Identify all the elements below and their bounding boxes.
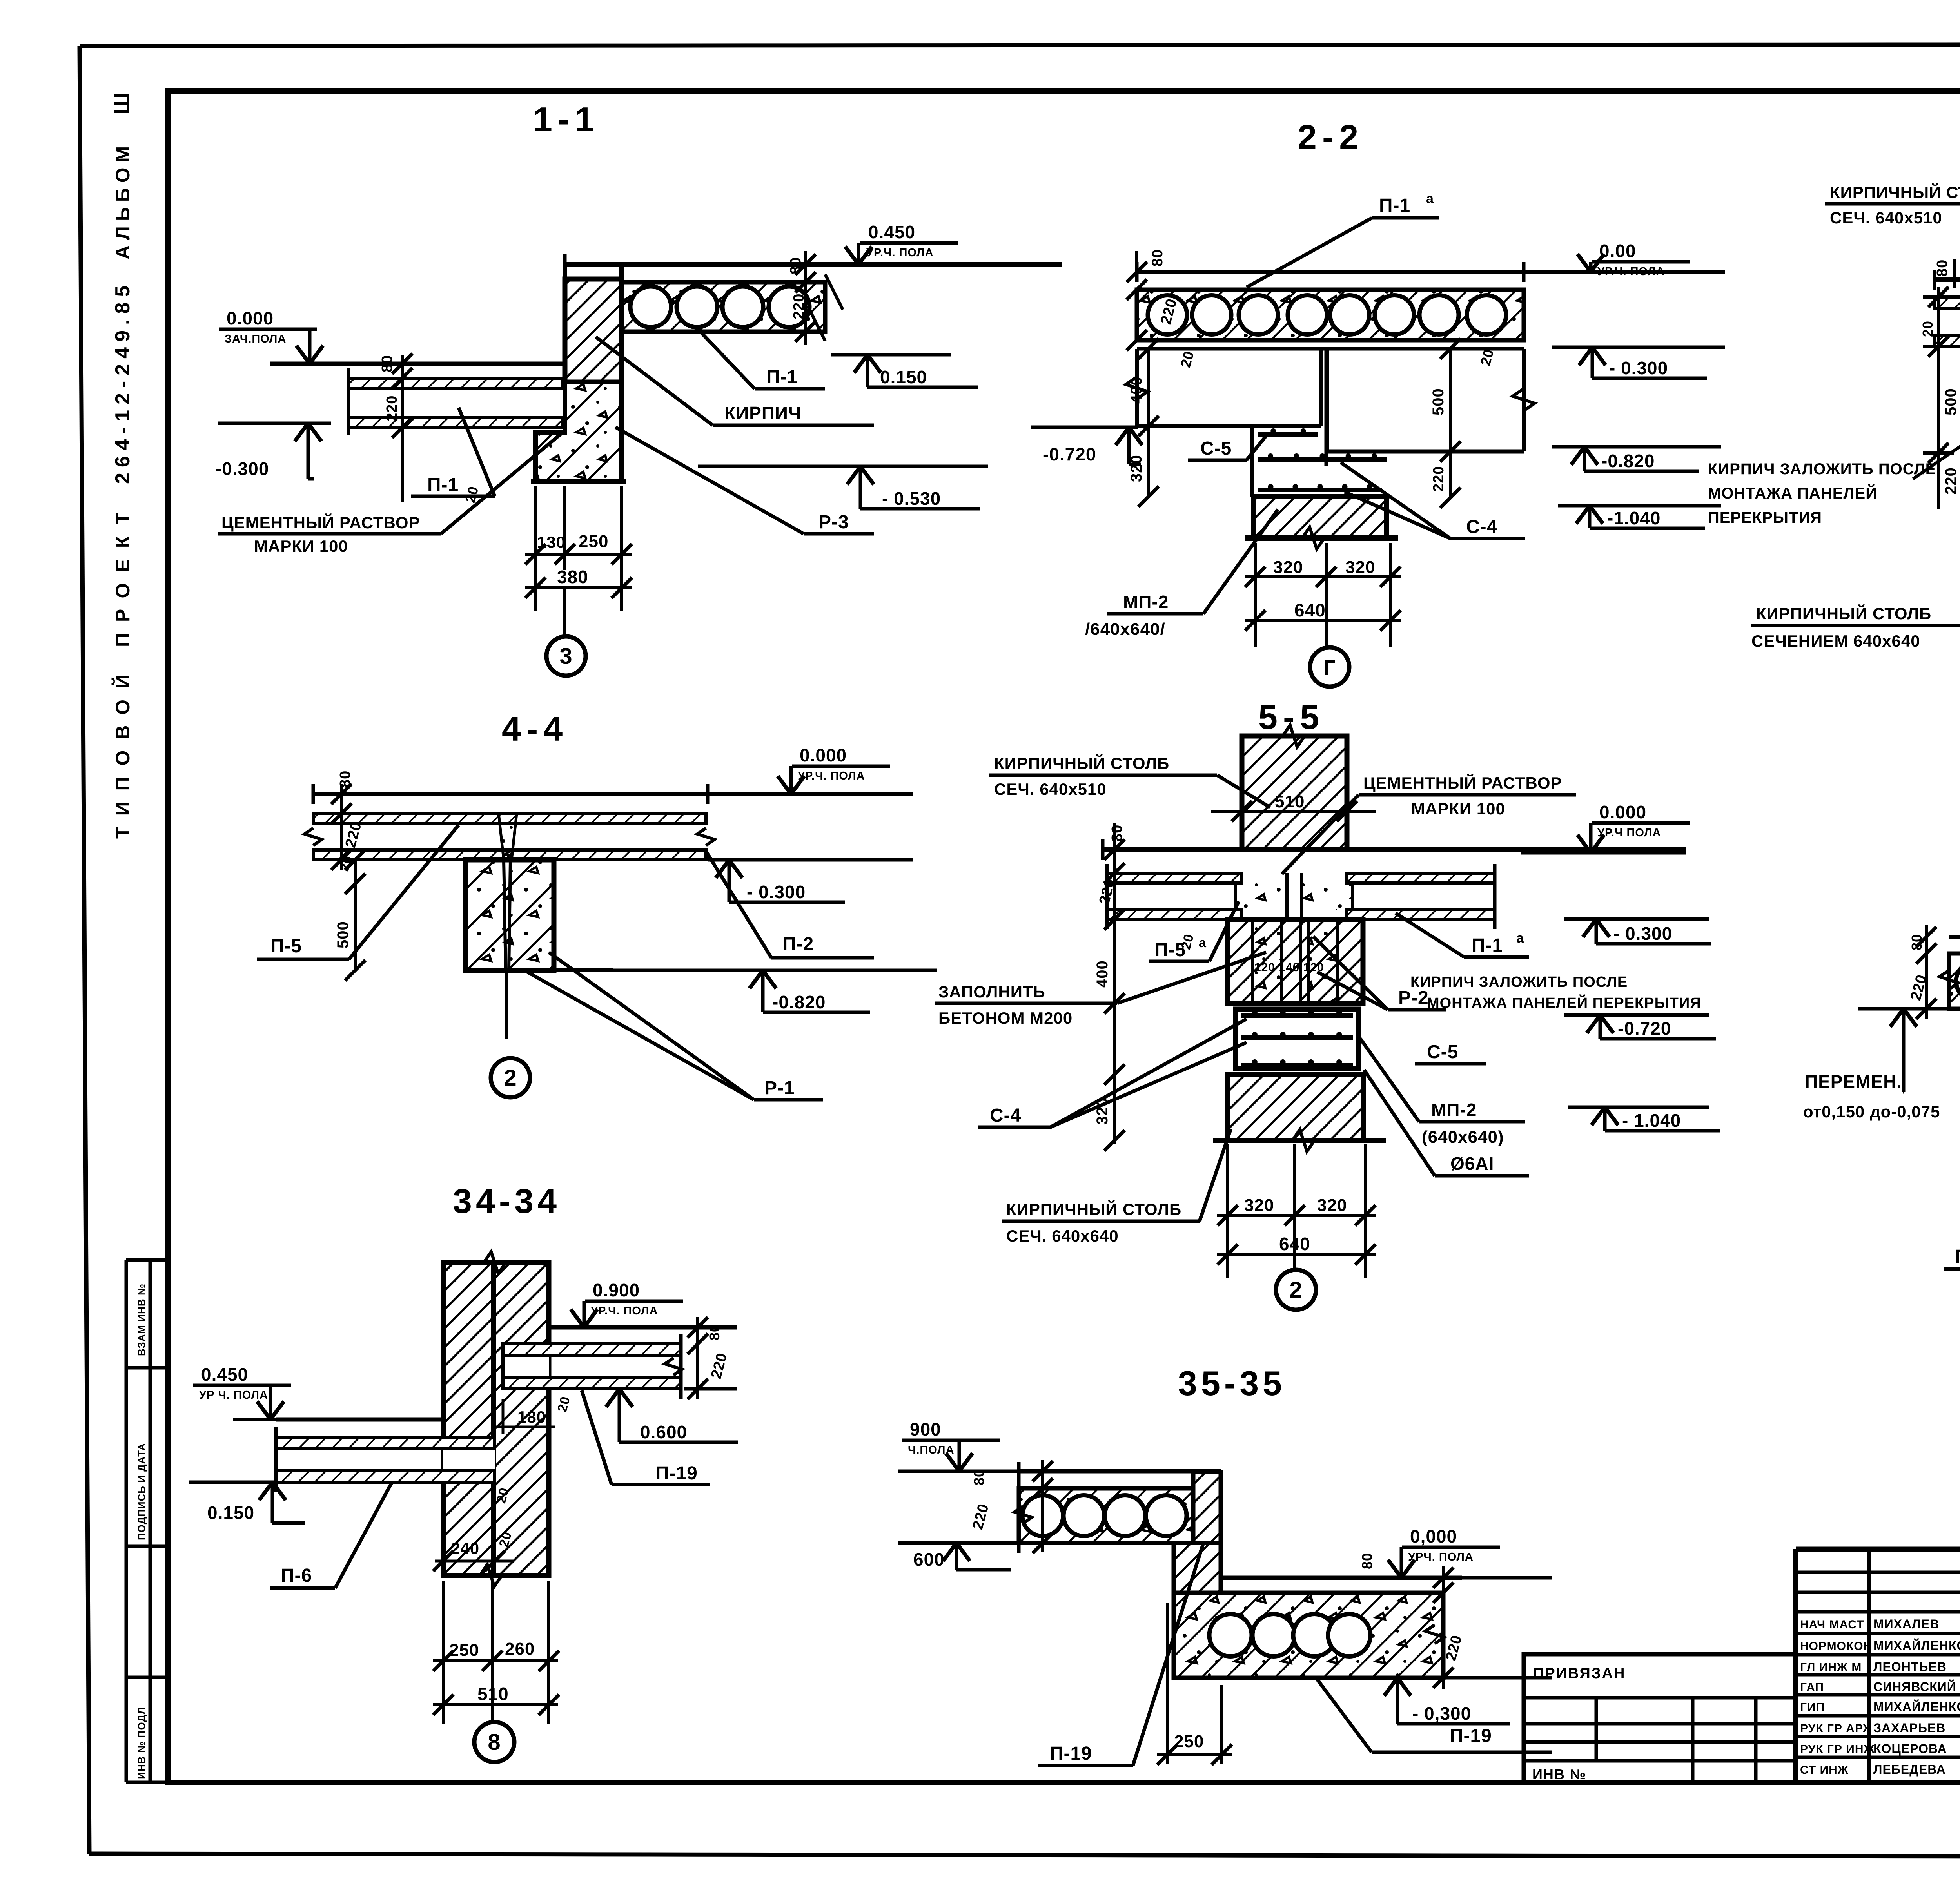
svg-text:0,000: 0,000 [1410,1526,1457,1546]
svg-text:0.000: 0.000 [1599,802,1646,822]
svg-text:ПОДПИСЬ И ДАТА: ПОДПИСЬ И ДАТА [136,1443,147,1540]
svg-text:КИРПИЧНЫЙ СТОЛБ: КИРПИЧНЫЙ СТОЛБ [1756,604,1931,623]
section 35-35 upper slab P-19 [1014,1462,1193,1553]
svg-text:С-5: С-5 [1427,1042,1458,1062]
section 4-4 floor line [313,784,906,804]
section 2-2 dim 320/320 [1245,543,1401,647]
left margin stamp strip [126,1260,168,1782]
section 3-3 left dims [1920,287,1960,509]
section 35-35 brick wall step [1174,1471,1221,1593]
binding table caption [1533,1665,1626,1682]
svg-text:П-1: П-1 [1379,195,1410,216]
section 5-5 elevation 0.000 right [1521,802,1690,853]
svg-text:ЛЕОНТЬЕВ: ЛЕОНТЬЕВ [1873,1660,1947,1674]
section 5-5 elevation -0.300 right [1564,919,1711,944]
svg-text:УР.Ч. ПОЛА: УР.Ч. ПОЛА [798,770,865,782]
section 35-35 dim 250 [1157,1603,1232,1765]
title block: signature table grid [1796,1549,1960,1782]
svg-text:ГЛ ИНЖ М: ГЛ ИНЖ М [1800,1661,1862,1674]
section 5-5 slab P-5a left [1107,864,1242,929]
svg-text:0.150: 0.150 [207,1503,254,1523]
section 4-4 column bottom line [466,968,613,972]
svg-text:а: а [1199,935,1207,950]
svg-text:Ш: Ш [109,92,134,114]
section 1-1 label P-1 left [411,408,495,496]
svg-text:МАРКИ 100: МАРКИ 100 [254,537,348,555]
svg-text:- 1.040: - 1.040 [1622,1110,1681,1131]
section 1-1 title [533,100,599,139]
svg-text:-1.040: -1.040 [1607,508,1661,528]
section 34-34 title [453,1182,561,1220]
section 1-1 label KIRPICH [596,337,874,425]
svg-text:а: а [1426,191,1434,206]
section 1-1 brick wall [565,265,622,382]
svg-text:250: 250 [1174,1732,1204,1751]
svg-text:С-4: С-4 [1466,517,1497,537]
svg-text:ЦЕМЕНТНЫЙ РАСТВОР: ЦЕМЕНТНЫЙ РАСТВОР [221,513,420,532]
svg-text:0.150: 0.150 [880,367,927,387]
section 3-3 label brick column top [1825,183,1960,235]
svg-text:80: 80 [337,770,354,788]
svg-text:ЗАПОЛНИТЬ: ЗАПОЛНИТЬ [938,983,1045,1001]
svg-text:/640x640/: /640x640/ [1085,620,1165,639]
svg-text:264-12-249.85: 264-12-249.85 [111,280,134,484]
section 34-34 elevation 0.150 left [189,1482,305,1523]
section 5-5 elevation -0.720 right [1564,1015,1716,1039]
svg-text:80: 80 [1934,259,1951,277]
section 4-4 label P-5 [257,825,459,959]
section 5-5 label MP-2 [1360,1039,1525,1147]
binding table inv caption [1532,1766,1586,1782]
svg-text:ВЗАМ ИНВ №: ВЗАМ ИНВ № [136,1283,147,1356]
section 33-33 elevation peremen left [1803,1009,1956,1121]
svg-text:УР.Ч. ПОЛА: УР.Ч. ПОЛА [591,1305,658,1317]
svg-text:Ø6АI: Ø6АI [1450,1153,1494,1174]
svg-text:ЗАХАРЬЕВ: ЗАХАРЬЕВ [1873,1721,1945,1735]
svg-text:8: 8 [488,1729,501,1755]
section 3-3 top-left dim 80/220 [1934,259,1960,334]
svg-text:СЕЧЕНИЕМ 640х640: СЕЧЕНИЕМ 640х640 [1751,632,1920,650]
section 35-35 elevation 0.600 left [898,1543,1019,1570]
svg-text:П-19: П-19 [1050,1743,1092,1764]
section 5-5 label cement mortar [1282,773,1576,874]
section 2-2 brick pier [1245,497,1398,549]
svg-text:ЦЕМЕНТНЫЙ РАСТВОР: ЦЕМЕНТНЫЙ РАСТВОР [1363,773,1562,792]
title block: signature names [1800,1617,1960,1777]
sheet outer border bottom [89,1854,1960,1857]
section 1-1 dim 130/250 [525,486,632,611]
svg-text:-0.820: -0.820 [1601,451,1655,471]
svg-text:КОЦЕРОВА: КОЦЕРОВА [1873,1742,1947,1756]
svg-text:640: 640 [1294,600,1326,620]
section 1-1 hollow-core slab P-1 right [622,282,825,332]
svg-text:0.000: 0.000 [227,308,274,328]
section 2-2 mounting slab MP-2 edge [1250,426,1254,497]
svg-text:РУК ГР ИНЖ: РУК ГР ИНЖ [1800,1743,1875,1756]
section 35-35 elevation -0.300 right [1364,1678,1552,1724]
section 5-5 label brick column top [989,754,1270,807]
section 4-4 label R-1 [527,952,823,1100]
section 34-34 label P-19 [582,1390,710,1485]
section 3-3 label brick column bottom [1751,533,1960,650]
section 33-33 left dims 80/220 [1907,925,1936,1019]
svg-text:УР Ч. ПОЛА: УР Ч. ПОЛА [199,1389,268,1401]
section 4-4 axis line and mark 2 [491,970,530,1097]
svg-text:ЛЕБЕДЕВА: ЛЕБЕДЕВА [1873,1762,1946,1777]
svg-text:от0,150 до-0,075: от0,150 до-0,075 [1803,1102,1940,1121]
section 34-34 dim 240/20 bottom [433,1530,515,1571]
svg-text:СЕЧ. 640х640: СЕЧ. 640х640 [1006,1227,1119,1245]
section 3-3 label kirpich zalozhit [1708,325,1960,526]
svg-text:СИНЯВСКИЙ: СИНЯВСКИЙ [1873,1680,1956,1694]
section 1-1 flat slab P-1 left [348,368,562,435]
svg-text:400: 400 [1128,376,1145,404]
svg-text:80: 80 [1109,825,1125,842]
section 1-1 floor line +0.450 [565,254,1062,274]
svg-text:34-34: 34-34 [453,1182,561,1220]
section 34-34 slab P-6 left [276,1427,495,1492]
section 34-34 label P-6 [270,1482,392,1588]
svg-text:180: 180 [517,1408,546,1426]
section 5-5 label P-5a [1149,901,1239,961]
left margin vertical text: project name [109,92,134,839]
section 2-2 dim 400 left [1128,339,1159,436]
section 4-4 elevation 0.000 right [745,745,913,794]
svg-text:КИРПИЧ ЗАЛОЖИТЬ ПОСЛЕ: КИРПИЧ ЗАЛОЖИТЬ ПОСЛЕ [1708,460,1936,478]
section 2-2 dim 500 right [1430,339,1461,462]
section 5-5 label zapolnit betonom [935,952,1266,1027]
section 33-33 left floor line [1949,935,1960,939]
svg-text:220: 220 [791,294,807,319]
svg-text:ИНВ №: ИНВ № [1532,1766,1586,1782]
section 2-2 title [1298,118,1364,156]
svg-text:С-4: С-4 [990,1105,1021,1126]
section 5-5 label P-1a [1396,913,1529,957]
svg-text:500: 500 [1430,388,1447,415]
svg-text:МИХАЙЛЕНКО: МИХАЙЛЕНКО [1873,1700,1960,1714]
section 4-4 elevation -0.820 right [613,970,937,1012]
section 4-4 column R-1 [466,860,554,970]
svg-text:-0.720: -0.720 [1043,444,1096,464]
svg-text:320: 320 [1317,1196,1347,1215]
svg-text:80: 80 [788,257,804,274]
section 2-2 dim labels 80/220/20 [1127,249,1497,369]
section 2-2 meshes C-4 [1258,453,1387,490]
section 5-5 elevation -1.040 right [1568,1107,1720,1131]
svg-text:Р-3: Р-3 [818,512,849,533]
svg-text:Р-1: Р-1 [764,1078,795,1099]
section 4-4 title [502,709,568,748]
svg-text:0.600: 0.600 [640,1422,687,1442]
svg-text:П-5: П-5 [1154,940,1186,961]
section 2-2 right wall outline [1327,349,1535,451]
section 2-2 label C-4 [1341,462,1525,538]
svg-text:а: а [1516,931,1524,946]
section 1-1 label cement mortar [218,434,561,555]
section 33-33 label P-2 [1944,1011,1960,1269]
svg-text:-0.820: -0.820 [772,992,826,1012]
svg-text:35-35: 35-35 [1178,1364,1286,1403]
section 34-34 elevation 0.900 right [549,1280,737,1327]
svg-text:Р-2: Р-2 [1398,988,1429,1008]
section 35-35 label P-19 lower [1317,1679,1552,1752]
section 35-35 elevation 0.900 left [898,1419,1019,1471]
svg-text:80: 80 [1909,934,1925,950]
section 2-2 mesh C-5 [1258,428,1318,434]
svg-text:БЕТОНОМ М200: БЕТОНОМ М200 [938,1009,1073,1027]
section 34-34 elevation 0.450 left [193,1364,357,1419]
section 3-3 floor line 0.000 [1935,270,1960,290]
section 34-34 left floor line [276,1418,443,1422]
section 34-34 right floor line [549,1325,737,1330]
section 5-5 label brick column bottom [1002,1129,1231,1245]
section 33-33 slab P-2 left [1940,954,1960,1009]
section 2-2 elevation 0.00 right [1552,241,1725,278]
svg-text:КИРПИЧ ЗАЛОЖИТЬ ПОСЛЕ: КИРПИЧ ЗАЛОЖИТЬ ПОСЛЕ [1410,974,1628,990]
section 35-35 left dims 80/220 [969,1460,1053,1553]
svg-text:320: 320 [1244,1196,1274,1215]
svg-text:УР.Ч ПОЛА: УР.Ч ПОЛА [1597,827,1661,839]
svg-text:МИХАЙЛЕНКО: МИХАЙЛЕНКО [1873,1639,1960,1653]
svg-text:УР.Ч. ПОЛА: УР.Ч. ПОЛА [1597,265,1665,278]
section 1-1 joint dim 20 [462,484,481,504]
section 4-4 elevation -0.300 right [708,860,913,902]
sheet outer border top [80,44,1960,46]
svg-text:П-19: П-19 [655,1463,698,1484]
svg-text:ГИП: ГИП [1800,1701,1825,1714]
svg-text:1-1: 1-1 [533,100,599,139]
section 34-34 slab P-19 right [503,1334,682,1399]
svg-text:2-2: 2-2 [1298,118,1364,156]
svg-text:220: 220 [1942,467,1960,495]
svg-text:ГАП: ГАП [1800,1681,1824,1694]
section 1-1 elevation +0.150 right [831,355,978,387]
svg-text:КИРПИЧ: КИРПИЧ [724,403,801,423]
svg-text:- 0.300: - 0.300 [747,882,806,902]
svg-text:МП-2: МП-2 [1431,1100,1477,1120]
section 5-5 label C-4 [978,1019,1247,1127]
section 5-5 label kirpich zalozhit [1410,974,1701,1012]
binding table grid [1524,1654,1796,1782]
section 35-35 right dims 80/220 [1359,1553,1465,1689]
svg-text:- 0.300: - 0.300 [1609,358,1668,378]
svg-text:20: 20 [1920,321,1936,337]
section 4-4 left dims 80/220 [331,770,365,870]
svg-text:0.900: 0.900 [593,1280,640,1300]
section 4-4 label P-2 [706,851,874,958]
section 35-35 title [1178,1364,1286,1403]
section 2-2 elevation -0.720 left [1031,427,1142,464]
svg-text:СЕЧ. 640х510: СЕЧ. 640х510 [994,780,1107,798]
section 1-1 elevation +0.450 right [827,222,1062,265]
section 34-34 dim 250/260 [433,1581,559,1724]
section 34-34 right wall notch white [503,1344,549,1389]
svg-text:РУК ГР АРХ: РУК ГР АРХ [1800,1722,1871,1735]
svg-text:130: 130 [537,533,566,551]
svg-text:МОНТАЖА ПАНЕЛЕЙ ПЕРЕКРЫТИЯ: МОНТАЖА ПАНЕЛЕЙ ПЕРЕКРЫТИЯ [1427,994,1701,1012]
section 1-1 floor line 0.000 left [270,362,565,366]
section 5-5 mounting slab MP-2 [1236,1009,1358,1068]
section 2-2 floor line 0.00 [1137,262,1725,282]
svg-text:0.000: 0.000 [800,745,847,765]
section 2-2 axis line and mark G [1310,580,1349,687]
section 1-1 label P-3 [615,427,874,534]
section 35-35 elevation 0.000 right [1354,1526,1552,1578]
section 2-2 elevation -0.820 right [1552,447,1721,471]
section 5-5 slab P-1a right [1347,864,1495,929]
svg-text:3: 3 [559,644,572,669]
svg-text:УР.Ч. ПОЛА: УР.Ч. ПОЛА [866,247,934,259]
svg-text:ЗАЧ.ПОЛА: ЗАЧ.ПОЛА [225,333,286,345]
section 35-35 lower floor line [1221,1576,1462,1580]
section 4-4 dim 500/20 [334,850,365,981]
section 5-5 left dims 80/220/400/320 [1094,823,1197,1151]
svg-text:П-19: П-19 [1450,1726,1492,1746]
svg-text:МП-2: МП-2 [1123,592,1169,612]
svg-text:0.00: 0.00 [1599,241,1636,261]
sheet outer border left [80,46,89,1854]
section 34-34 dim 20 left [494,1486,512,1505]
section 5-5 brick pier below [1213,1075,1386,1151]
svg-text:250: 250 [579,532,608,551]
section 2-2 label MP-2 [1085,509,1278,639]
svg-text:- 0.530: - 0.530 [882,488,941,509]
svg-text:П-1: П-1 [766,367,798,388]
section 5-5 axis line and mark 2 [1276,1270,1316,1310]
section 2-2 label P-1a [1247,191,1439,287]
svg-text:НАЧ МАСТ: НАЧ МАСТ [1800,1618,1864,1631]
svg-text:- 0.300: - 0.300 [1613,923,1672,944]
svg-text:УРЧ. ПОЛА: УРЧ. ПОЛА [1408,1551,1474,1563]
svg-text:П-2: П-2 [782,934,814,955]
section 34-34 axis line and mark 8 [474,1685,514,1762]
svg-text:Г: Г [1323,656,1336,680]
section 1-1 elevation -0.300 left [216,423,331,479]
section 5-5 dim 320/320 [1217,1144,1376,1278]
section 1-1 left dim 80/220 [379,353,412,502]
svg-text:80: 80 [1359,1553,1375,1569]
svg-text:СЕЧ. 640х510: СЕЧ. 640х510 [1830,208,1942,227]
section 4-4 slab P-5 and P-2 [305,814,715,860]
svg-text:510: 510 [1275,792,1305,811]
svg-text:АЛЬБОМ: АЛЬБОМ [112,141,134,259]
section 35-35 label P-19 upper [1038,1544,1203,1766]
svg-text:П-1: П-1 [427,475,459,495]
section 3-3 slab P-5a left [1935,297,1960,346]
svg-text:НОРМОКОН: НОРМОКОН [1800,1640,1872,1653]
svg-text:240: 240 [451,1539,479,1557]
svg-text:ПРИВЯЗАН: ПРИВЯЗАН [1533,1665,1626,1682]
section 1-1 elevation -0.530 right [698,466,988,509]
svg-text:900: 900 [910,1419,941,1439]
svg-text:600: 600 [913,1549,945,1570]
section 5-5 title [1258,698,1325,736]
svg-text:С-5: С-5 [1200,438,1232,459]
svg-text:- 0,300: - 0,300 [1412,1703,1471,1724]
section 5-5 label R-2 [1313,937,1446,1010]
section 2-2 dim 640 [1245,600,1401,631]
svg-text:МОНТАЖА ПАНЕЛЕЙ: МОНТАЖА ПАНЕЛЕЙ [1708,484,1877,502]
section 1-1 label P-1 right [702,333,825,389]
svg-text:КИРПИЧНЫЙ СТОЛБ: КИРПИЧНЫЙ СТОЛБ [994,754,1169,772]
svg-text:П-2: П-2 [1955,1246,1960,1267]
svg-text:2: 2 [1289,1277,1302,1303]
svg-text:ТИПОВОЙ ПРОЕКТ: ТИПОВОЙ ПРОЕКТ [111,502,134,839]
section 2-2 elevation -0.300 right [1552,347,1725,378]
svg-text:260: 260 [505,1639,535,1659]
section 5-5 brick column below slab [1227,919,1363,1003]
section 2-2 ceiling line [1137,347,1524,351]
svg-text:220: 220 [384,395,400,421]
svg-text:П-5: П-5 [270,936,302,957]
svg-text:120 140 120: 120 140 120 [1254,961,1324,974]
section 5-5 label fi6AI [1364,1070,1529,1176]
svg-text:400: 400 [1094,960,1111,988]
section 2-2 elevation -1.040 right [1558,506,1721,528]
section 35-35 lower slab P-19 [1174,1593,1444,1678]
section 2-2 label C-5 [1188,436,1266,460]
section 1-1 right dim 80/220 [788,251,816,345]
section 5-5 mortar joints in slab [1235,873,1353,919]
svg-text:-0.300: -0.300 [216,459,269,479]
svg-text:2: 2 [504,1065,517,1091]
svg-text:380: 380 [557,567,588,587]
svg-text:(640х640): (640х640) [1422,1128,1504,1147]
section 34-34 elevation 0.600 right [606,1389,738,1442]
section 34-34 right dims 80/220 [688,1317,731,1399]
svg-text:МИХАЛЕВ: МИХАЛЕВ [1873,1617,1939,1631]
svg-text:П-6: П-6 [281,1565,312,1586]
section 5-5 brick column above floor [1211,725,1376,850]
svg-text:П-1: П-1 [1472,935,1503,956]
section 1-1 axis line and mark 3 [546,588,586,676]
section 1-1 slab break mark [808,274,843,341]
svg-text:0.450: 0.450 [201,1364,248,1385]
section 2-2 dim 220 right [1430,451,1461,508]
section 1-1 elevation 0.000 left [219,308,565,364]
section 2-2 hollow-core slab P-1a [1137,290,1524,340]
section 5-5 floor line 0.000 [1103,839,1686,860]
svg-text:320: 320 [1273,558,1303,577]
svg-text:640: 640 [1279,1234,1310,1254]
section 2-2 dim 320 left [1128,426,1159,507]
section 34-34 brick wall [443,1252,549,1586]
svg-text:ПЕРЕМЕН.: ПЕРЕМЕН. [1805,1071,1902,1092]
svg-text:-0.720: -0.720 [1618,1018,1671,1039]
svg-text:4-4: 4-4 [502,709,568,748]
svg-text:0.450: 0.450 [868,222,915,242]
section 5-5 label C-5 [1415,1042,1486,1064]
section 1-1 dim 380 [525,567,632,598]
svg-text:320: 320 [1345,558,1375,577]
svg-text:500: 500 [1942,388,1960,415]
svg-text:250: 250 [449,1641,479,1660]
section 35-35 upper floor line [1019,1469,1221,1474]
section 4-4 slab joint gusset [499,814,517,860]
svg-text:ПЕРЕКРЫТИЯ: ПЕРЕКРЫТИЯ [1708,509,1822,526]
svg-text:КИРПИЧНЫЙ СТОЛБ: КИРПИЧНЫЙ СТОЛБ [1006,1200,1181,1218]
svg-text:СТ ИНЖ: СТ ИНЖ [1800,1764,1849,1777]
section 34-34 left wall notch white [443,1437,495,1482]
section 5-5 dim 640 [1217,1234,1376,1265]
section 1-1 concrete pier P-3 [531,382,626,481]
svg-text:КИРПИЧНЫЙ СТОЛБ: КИРПИЧНЫЙ СТОЛБ [1830,183,1960,201]
svg-text:80: 80 [1149,249,1166,266]
svg-text:МАРКИ 100: МАРКИ 100 [1411,799,1505,818]
section 2-2 left wall outline [1126,349,1326,466]
svg-text:ИНВ № ПОДЛ: ИНВ № ПОДЛ [136,1707,147,1779]
section 34-34 dim 20/180 right [493,1395,573,1434]
